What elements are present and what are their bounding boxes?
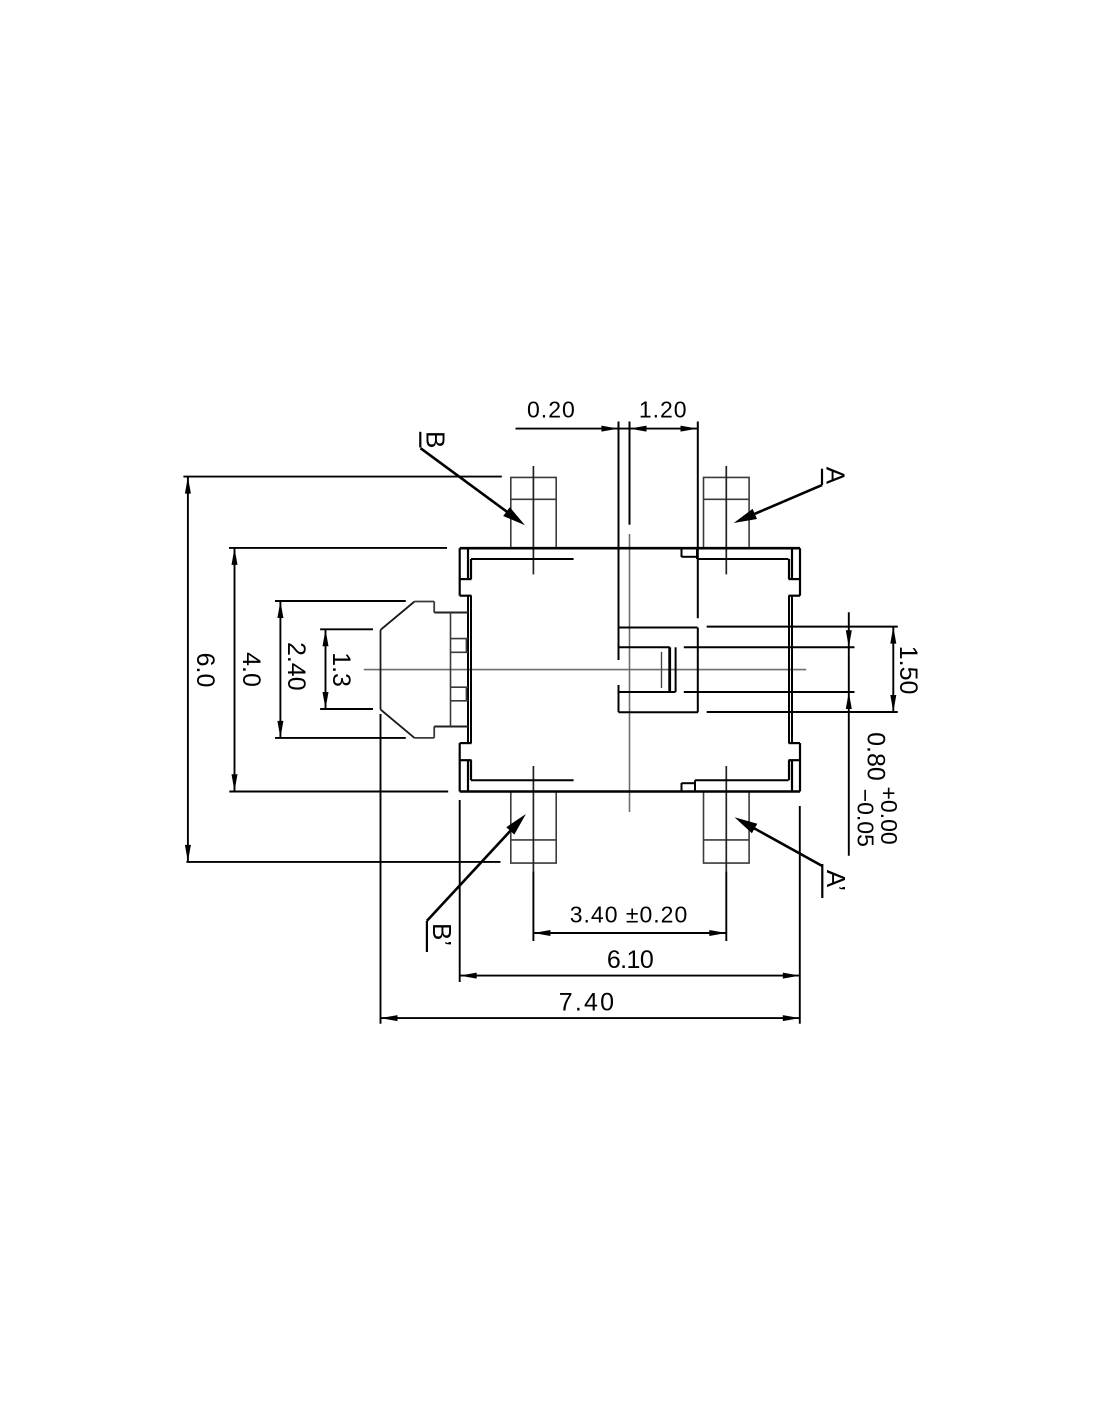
svg-text:A’: A’	[821, 870, 851, 891]
dim 4.0 arrows	[232, 548, 238, 565]
body left wall	[468, 596, 471, 743]
cover tab slot top	[682, 548, 698, 559]
pad BL solder line	[511, 839, 556, 841]
dim 6.10 arrows	[460, 973, 477, 979]
extension line x629.5	[629, 422, 631, 525]
section leader B	[421, 448, 513, 515]
svg-text:6.10: 6.10	[607, 946, 653, 974]
actuator front face	[380, 630, 382, 710]
dim 7.40 line	[381, 1017, 800, 1019]
dim 6.10 line	[460, 975, 800, 977]
svg-text:7.40: 7.40	[559, 989, 616, 1017]
svg-text:−0.05: −0.05	[853, 789, 879, 847]
section leader A'	[746, 824, 823, 867]
svg-text:3.40 ±0.20: 3.40 ±0.20	[570, 901, 689, 927]
dim 1.3 extension top	[320, 628, 373, 630]
dim 4.0 extension bottom	[229, 791, 448, 793]
dim 6.0 arrows	[185, 477, 191, 494]
section label A'	[821, 864, 823, 898]
contact thin line	[661, 652, 663, 688]
pad BL centerline	[532, 766, 534, 871]
actuator tab upper	[451, 639, 469, 653]
svg-text:1.20: 1.20	[639, 397, 688, 423]
body top edge	[460, 547, 800, 550]
dim 2.40 arrows	[277, 601, 283, 618]
svg-text:+0.00: +0.00	[876, 786, 902, 844]
body left corner tab bottom	[460, 743, 472, 791]
dim 3.40 extension left	[532, 871, 534, 941]
svg-text:B’: B’	[427, 923, 457, 946]
cover inner bottom line	[471, 779, 789, 781]
dim 1.3 line	[325, 629, 327, 709]
dim 3.40 arrows	[533, 930, 550, 936]
contact cavity right edge	[697, 422, 699, 713]
pad TL centerline	[532, 466, 534, 574]
dim 2.40 line	[279, 601, 281, 738]
dim 1.3 arrows	[323, 629, 329, 646]
actuator top chamfer	[381, 602, 415, 630]
dim 4.0 extension top	[229, 547, 447, 549]
section label A	[821, 469, 823, 485]
actuator inner line	[450, 613, 452, 727]
contact lower line	[619, 691, 855, 693]
contact cavity bottom line	[619, 711, 898, 713]
contact cavity top line	[619, 626, 898, 629]
dim 6.0 line	[187, 477, 189, 862]
dim 3.40 line	[533, 932, 726, 934]
section leader B'	[427, 825, 516, 921]
section leader A	[745, 485, 822, 518]
body right corner tab bottom	[789, 743, 801, 791]
svg-text:0.80: 0.80	[862, 732, 890, 781]
actuator shoulder top	[434, 612, 468, 614]
svg-text:1.3: 1.3	[327, 652, 355, 687]
dim 6.10 extension right	[799, 806, 801, 1024]
pad TR outline	[704, 477, 750, 548]
dim 0.80 arrows	[846, 630, 852, 647]
centerline horizontal	[364, 669, 806, 671]
pad BR solder line	[704, 839, 750, 841]
svg-text:A: A	[821, 467, 851, 485]
svg-text:6.0: 6.0	[191, 653, 219, 688]
dim 4.0 line	[234, 548, 236, 792]
dim 1.3 extension bottom	[320, 708, 373, 710]
actuator tab lower	[451, 687, 469, 701]
dim 1.50 arrows	[890, 627, 896, 644]
actuator shoulder bottom	[434, 726, 468, 728]
pad TL solder line	[511, 498, 556, 500]
dim 0.80 line	[848, 612, 850, 856]
dim 0.20 arrow	[601, 426, 618, 432]
dim 7.40 arrows	[381, 1015, 398, 1021]
pad TR centerline	[725, 466, 727, 574]
body bottom edge	[460, 790, 800, 793]
svg-text:1.50: 1.50	[894, 646, 922, 695]
dim 7.40 extension left	[380, 714, 382, 1024]
dim 2.40 extension bottom	[275, 737, 406, 739]
body right wall	[789, 596, 792, 743]
svg-text:B: B	[421, 431, 451, 448]
centerline vertical	[629, 534, 631, 812]
contact upper line	[619, 646, 855, 648]
dim 2.40 extension top	[275, 600, 406, 602]
movable contact box	[670, 647, 676, 692]
section label B'	[426, 921, 428, 952]
cover tab slot bottom	[682, 780, 696, 791]
contact cavity left edge	[618, 422, 620, 713]
svg-text:4.0: 4.0	[237, 652, 265, 687]
actuator top edge	[415, 602, 435, 613]
actuator bottom chamfer	[381, 710, 415, 738]
pad TL outline	[511, 477, 556, 548]
svg-text:0.20: 0.20	[527, 397, 576, 423]
body right corner tab top	[789, 548, 801, 596]
pad TR solder line	[704, 498, 750, 500]
dim 6.0 extension top	[183, 476, 501, 478]
dim 6.0 extension bottom	[186, 861, 500, 863]
dim 0.20 line	[516, 428, 698, 430]
dim 6.10 extension left	[459, 800, 461, 982]
actuator bottom edge	[415, 727, 435, 738]
cover inner top line	[471, 558, 789, 560]
section label B	[419, 432, 421, 448]
dim 1.50 line	[892, 627, 894, 712]
body left corner tab top	[460, 548, 472, 596]
pad BR outline	[704, 792, 750, 864]
svg-text:2.40: 2.40	[282, 642, 310, 691]
dim 1.20 arrows	[630, 426, 647, 432]
pad BL outline	[511, 792, 556, 864]
pad BR centerline	[725, 766, 727, 871]
dim 3.40 extension right	[725, 871, 727, 941]
